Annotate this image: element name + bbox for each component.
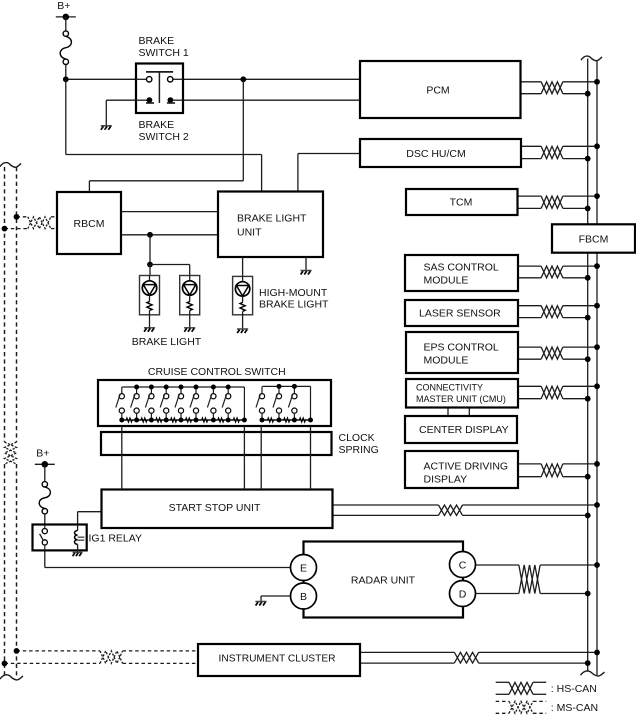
- wire: [140, 276, 160, 315]
- wire: [180, 276, 200, 315]
- svg-text:ACTIVE DRIVING: ACTIVE DRIVING: [424, 461, 509, 473]
- svg-text:B+: B+: [36, 447, 49, 459]
- svg-text:B: B: [300, 591, 307, 603]
- wire RBCM to brake light unit A: [121, 211, 218, 213]
- wire ADD to HS-CAN: [518, 463, 541, 465]
- svg-text:HIGH-MOUNT: HIGH-MOUNT: [259, 287, 328, 299]
- wire brake switch 2 ground side: [106, 99, 147, 101]
- svg-text:IG1 RELAY: IG1 RELAY: [89, 533, 143, 545]
- resistor cruise ladder: [216, 418, 226, 422]
- svg-text:BRAKE LIGHT: BRAKE LIGHT: [132, 336, 202, 348]
- ground high-mount brake light: [237, 328, 248, 330]
- ground brake light unit: [300, 270, 311, 272]
- wire: [233, 276, 253, 314]
- node junction brake switch output: [240, 76, 246, 82]
- svg-text:RADAR UNIT: RADAR UNIT: [351, 574, 416, 586]
- svg-text:PCM: PCM: [426, 85, 449, 97]
- node cruise right group top rail: [262, 385, 310, 387]
- wire cruise to start stop 4: [310, 426, 312, 490]
- svg-text:DISPLAY: DISPLAY: [424, 474, 468, 486]
- svg-text:EPS CONTROL: EPS CONTROL: [424, 342, 499, 354]
- op center display: [405, 416, 517, 443]
- wire PCM to HS-CAN: [521, 81, 542, 83]
- wire radar B to ground: [261, 595, 291, 597]
- node HS-CAN bus line left: [587, 59, 589, 225]
- wire CMU to HS-CAN: [518, 385, 541, 387]
- svg-text:E: E: [300, 562, 307, 574]
- wire brake switch row1 to PCM: [173, 78, 360, 80]
- wire bus break bottom: [581, 671, 605, 676]
- node MS-CAN bus line right: [16, 167, 18, 442]
- wire BLU right ground: [305, 257, 307, 271]
- svg-text:SWITCH 2: SWITCH 2: [139, 131, 189, 143]
- switch IG1 relay contact: [44, 525, 46, 529]
- node junction bulb feed: [147, 232, 153, 238]
- svg-text:CONNECTIVITY: CONNECTIVITY: [416, 383, 483, 393]
- op clock spring: [101, 432, 332, 455]
- resistor cruise ladder right: [282, 418, 292, 422]
- op TCM: [406, 189, 518, 215]
- resistor cruise ladder: [199, 418, 211, 422]
- switch cruise rsw3: [293, 386, 295, 393]
- legend MS-CAN sample: [496, 700, 509, 702]
- op PCM: [360, 61, 521, 118]
- node cruise right group bottom rail: [261, 419, 310, 421]
- svg-text:SWITCH 1: SWITCH 1: [139, 47, 189, 59]
- wire TCM to HS-CAN: [518, 195, 542, 197]
- svg-text:CLOCK: CLOCK: [339, 432, 375, 444]
- node radar pin E: [291, 555, 317, 581]
- svg-text:TCM: TCM: [450, 197, 473, 209]
- wire EPS to HS-CAN: [518, 346, 541, 348]
- op DSC HU/CM: [360, 139, 521, 167]
- wire cruise to start stop 2: [243, 426, 245, 490]
- svg-text:BRAKE LIGHT: BRAKE LIGHT: [237, 213, 307, 225]
- op start stop unit: [102, 490, 333, 529]
- wire relay switch to radar E: [44, 550, 46, 567]
- wire B+ branch to brake light unit: [65, 79, 67, 154]
- op FBCM: [552, 224, 635, 252]
- svg-text:SAS CONTROL: SAS CONTROL: [424, 262, 499, 274]
- switch cruise sw5: [180, 387, 182, 394]
- switch brake switch 2: [147, 97, 153, 103]
- node MS-CAN bus line left: [4, 167, 6, 442]
- wire instrument cluster to MS-CAN: [17, 650, 101, 652]
- op radar unit: [304, 542, 464, 618]
- switch cruise sw7: [212, 387, 214, 394]
- wire cruise to start stop 1: [121, 426, 123, 490]
- resistor cruise ladder right: [297, 418, 308, 422]
- op cruise control switch box: [98, 380, 331, 426]
- svg-text:MODULE: MODULE: [424, 355, 469, 367]
- svg-text:SPRING: SPRING: [339, 444, 379, 456]
- svg-text:RBCM: RBCM: [74, 218, 105, 230]
- svg-text:BRAKE LIGHT: BRAKE LIGHT: [259, 299, 329, 311]
- switch cruise sw4: [165, 387, 167, 394]
- op RBCM: [57, 192, 121, 254]
- op laser sensor: [405, 300, 518, 326]
- wire RBCM to brake light unit B: [121, 234, 218, 236]
- op EPS control module: [406, 332, 518, 373]
- ground brake switch 2: [101, 125, 112, 127]
- wire radar D to HS-CAN: [475, 593, 519, 595]
- wire brake switch to RBCM: [242, 79, 244, 181]
- resistor cruise ladder: [154, 418, 164, 422]
- svg-text:BRAKE: BRAKE: [139, 35, 175, 47]
- op IG1 relay box: [33, 525, 87, 551]
- wire MS-CAN break top: [0, 163, 21, 168]
- wire MS-CAN break bottom: [0, 675, 23, 680]
- resistor cruise ladder: [231, 418, 242, 422]
- wire LASER to HS-CAN: [518, 305, 541, 307]
- wire bulb feed: [149, 235, 151, 265]
- wire relay coil to start stop unit: [77, 512, 79, 525]
- svg-text:MASTER UNIT (CMU): MASTER UNIT (CMU): [416, 394, 506, 404]
- node junction B+ branch: [63, 76, 69, 82]
- svg-text:C: C: [459, 559, 467, 571]
- wire radar twisted pair: [519, 565, 540, 594]
- inductor IG1 relay coil: [77, 525, 79, 531]
- wire brake switch row2 to PCM: [173, 99, 360, 101]
- wire SAS to HS-CAN: [518, 265, 541, 267]
- wire RBCM to MS-CAN: [17, 216, 28, 218]
- resistor cruise ladder right: [265, 418, 277, 422]
- switch cruise sw1: [121, 387, 123, 394]
- wire radar C to HS-CAN: [475, 564, 519, 566]
- resistor cruise ladder: [124, 418, 134, 422]
- op instrument cluster: [198, 644, 360, 676]
- svg-text:FBCM: FBCM: [579, 233, 609, 245]
- svg-text:: MS-CAN: : MS-CAN: [551, 702, 598, 714]
- wire DSC HU/CM to brake light unit: [298, 153, 360, 155]
- svg-text:CENTER DISPLAY: CENTER DISPLAY: [419, 424, 509, 436]
- node cruise left group top rail: [122, 386, 245, 388]
- brake switch assembly box: [136, 64, 183, 114]
- switch cruise rsw2: [278, 386, 280, 393]
- op brake light unit: [218, 192, 323, 258]
- wire bus break top: [581, 56, 602, 61]
- wire BLU to high-mount lamp: [242, 257, 244, 276]
- node cruise left group bottom rail: [122, 419, 245, 421]
- svg-text:DSC HU/CM: DSC HU/CM: [406, 148, 466, 160]
- fuse F1: [63, 31, 68, 36]
- svg-text:START STOP UNIT: START STOP UNIT: [169, 502, 261, 514]
- wire start stop unit to HS-CAN: [333, 504, 439, 506]
- ground brake light 2: [184, 327, 195, 329]
- svg-text:UNIT: UNIT: [237, 227, 262, 239]
- node radar pin C: [450, 552, 476, 578]
- switch cruise sw6: [195, 387, 197, 394]
- switch cruise rsw1: [261, 386, 263, 393]
- switch brake switch 1: [146, 71, 173, 73]
- op active driving display: [405, 451, 518, 488]
- resistor cruise ladder: [169, 418, 179, 422]
- wire instrument cluster to HS-CAN: [360, 651, 454, 653]
- wire B+ to brake switch row1: [66, 78, 147, 80]
- wire brake switch inner stubs: [136, 78, 147, 80]
- wire CMU to center display: [447, 408, 449, 417]
- node radar pin B: [291, 583, 317, 609]
- op connectivity master unit: [406, 379, 518, 408]
- svg-text:D: D: [459, 588, 467, 600]
- wire DSC to HS-CAN: [521, 145, 541, 147]
- svg-text:: HS-CAN: : HS-CAN: [551, 683, 597, 695]
- op SAS control module: [405, 255, 518, 291]
- svg-text:CRUISE CONTROL SWITCH: CRUISE CONTROL SWITCH: [148, 366, 286, 378]
- svg-text:BRAKE: BRAKE: [139, 119, 175, 131]
- node radar pin D: [450, 581, 476, 607]
- legend HS-CAN sample: [496, 681, 509, 683]
- node HS-CAN bus line right: [596, 61, 598, 224]
- resistor cruise ladder: [139, 418, 149, 422]
- fuse F2: [42, 482, 47, 487]
- svg-text:INSTRUMENT CLUSTER: INSTRUMENT CLUSTER: [219, 653, 336, 664]
- switch cruise sw2: [136, 387, 138, 394]
- wire cruise to start stop 3: [260, 426, 262, 490]
- ground brake light 1: [144, 327, 155, 329]
- ground radar B: [255, 601, 266, 603]
- resistor cruise ladder: [184, 418, 194, 422]
- svg-text:LASER SENSOR: LASER SENSOR: [419, 308, 501, 320]
- switch cruise sw3: [150, 387, 152, 394]
- wire MS-CAN twisted section: [5, 442, 17, 464]
- svg-text:B+: B+: [57, 0, 70, 12]
- switch cruise sw8: [227, 387, 229, 394]
- svg-text:MODULE: MODULE: [424, 275, 469, 287]
- ground IG1 relay coil: [73, 552, 83, 554]
